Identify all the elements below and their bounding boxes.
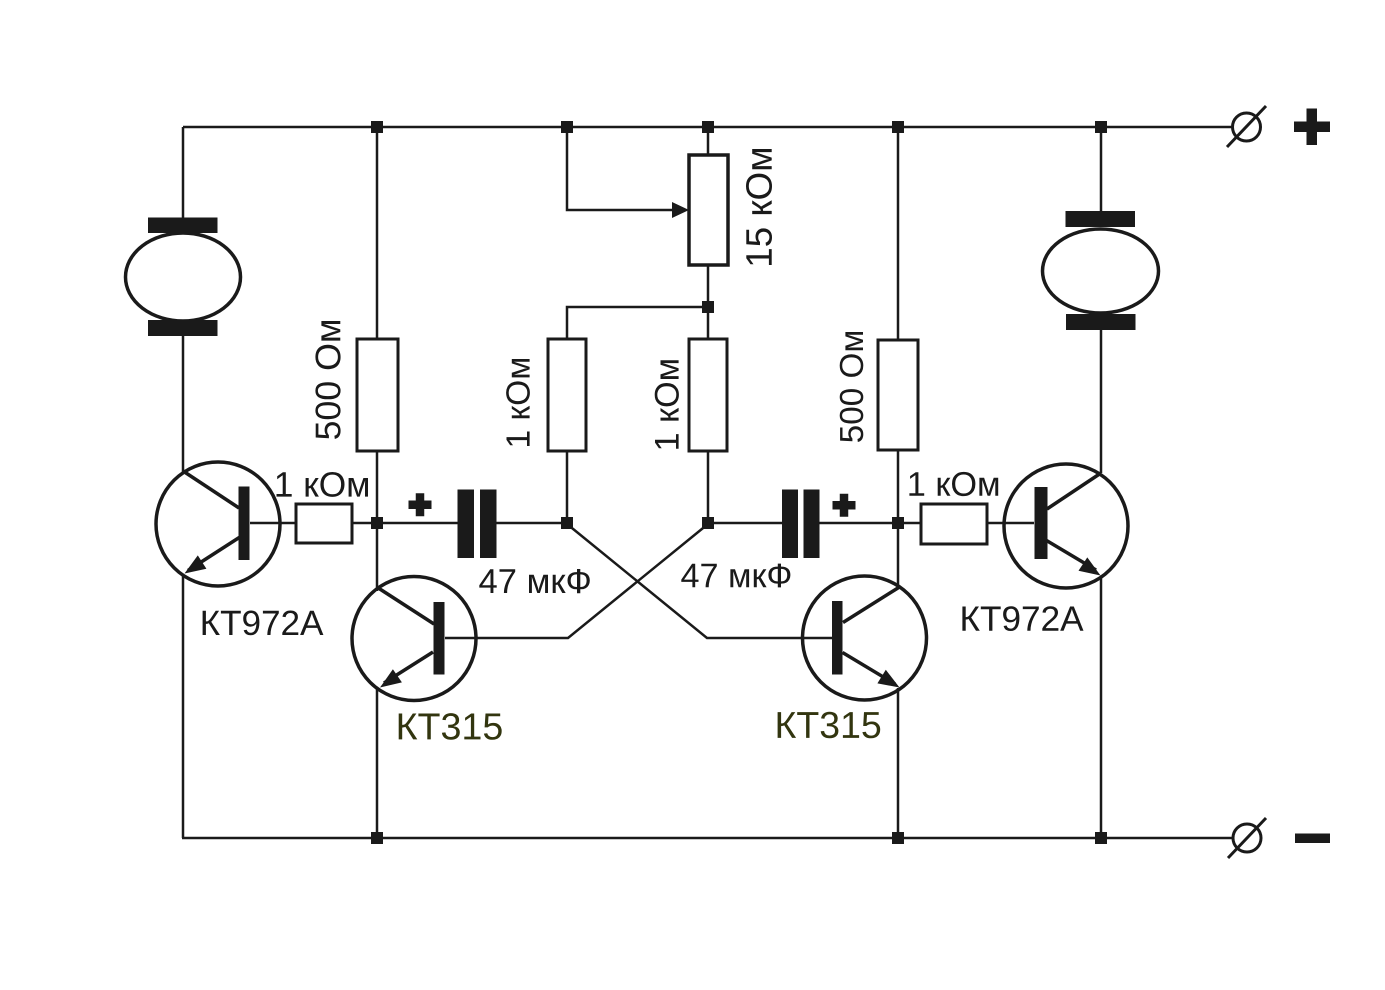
wire node A to C1 left plate <box>377 522 458 525</box>
node dot B pot bottom <box>702 301 714 313</box>
motor M1 <box>126 218 241 337</box>
node dot top rail / wiper <box>561 121 573 133</box>
wire R2 bottom to node A <box>376 451 379 523</box>
node dot bottom rail / Q2 <box>371 832 383 844</box>
wire node B to R5 top <box>707 307 710 339</box>
wire pot RP1 bottom to node B <box>707 265 710 307</box>
node dot top rail / M2 <box>1095 121 1107 133</box>
node dot C <box>561 517 573 529</box>
wire node E to Q3 collector <box>897 523 900 589</box>
wire C1 right plate to node C <box>496 522 567 525</box>
wire cross-coupling node D to Q2 base <box>445 524 708 638</box>
wire R5 bottom to node D <box>707 451 710 523</box>
wire Q3 emitter to bottom rail <box>897 688 900 838</box>
wire R3 bottom to node C <box>566 451 569 523</box>
node dot bottom rail / Q4 <box>1095 832 1107 844</box>
transistor Q1 КТ972А (left) <box>156 462 323 635</box>
wire left column: rail to motor M1 <box>182 127 185 222</box>
resistor R4 1 кОм (right base) <box>909 472 998 544</box>
transistor Q3 КТ315 (right) <box>778 576 927 738</box>
resistor R5 1 кОм (mid-right) <box>655 339 727 451</box>
wire Q1 base to R1 <box>250 522 296 525</box>
node dot top rail / R6 <box>892 121 904 133</box>
wire Q4 emitter to bottom rail <box>1100 577 1103 838</box>
wire R6 bottom to node E <box>897 450 900 523</box>
wire node B to R3 top <box>567 307 708 339</box>
wire top rail to pot RP1 top <box>707 127 710 155</box>
wire R4 to Q4 base <box>987 522 1034 525</box>
wire node D to C2 left plate <box>708 522 783 525</box>
transistor Q2 КТ315 (left) <box>352 577 502 740</box>
node dot top rail / pot <box>702 121 714 133</box>
resistor R1 1 кОм (left base) <box>277 472 369 543</box>
node dot A <box>371 517 383 529</box>
motor M2 <box>1043 211 1159 330</box>
wire bottom supply rail - <box>182 837 1233 840</box>
resistor R3 1 кОм (mid-left) <box>506 339 586 451</box>
wire top rail to pot wiper horizontal <box>567 127 674 210</box>
wire motor M2 bottom to Q4 collector <box>1100 329 1103 473</box>
potentiometer RP1 15 кОм <box>672 149 772 265</box>
wire top rail to resistor R2 500 Ом <box>376 127 379 339</box>
wire Q1 emitter to bottom rail <box>182 575 185 838</box>
wire top supply rail + <box>183 126 1232 129</box>
wire node E to R4 <box>898 522 921 525</box>
node dot bottom rail / Q3 <box>892 832 904 844</box>
wire Q2 emitter to bottom rail <box>376 688 379 838</box>
wire motor M1 bottom to Q1 collector <box>182 330 185 473</box>
node dot D <box>702 517 714 529</box>
resistor R6 500 Ом (right) <box>840 332 918 450</box>
wire top rail to resistor R6 500 Ом <box>897 127 900 340</box>
wire R1 to node A <box>352 522 377 525</box>
transistor Q4 КТ972А (right) <box>962 464 1128 631</box>
terminal + output <box>1227 106 1330 147</box>
node dot top rail / R2 <box>371 121 383 133</box>
wire cross-coupling node C to Q3 base <box>567 524 832 638</box>
terminal - output <box>1228 818 1330 858</box>
resistor R2 500 Ом (left) <box>315 321 398 451</box>
wire C2 right plate to node E <box>818 522 898 525</box>
wire rail to motor M2 <box>1100 127 1103 214</box>
node dot E <box>892 517 904 529</box>
capacitor C2 47 мкФ <box>681 490 855 588</box>
capacitor C1 47 мкФ <box>409 490 590 594</box>
wire node A to Q2 collector <box>376 523 379 591</box>
